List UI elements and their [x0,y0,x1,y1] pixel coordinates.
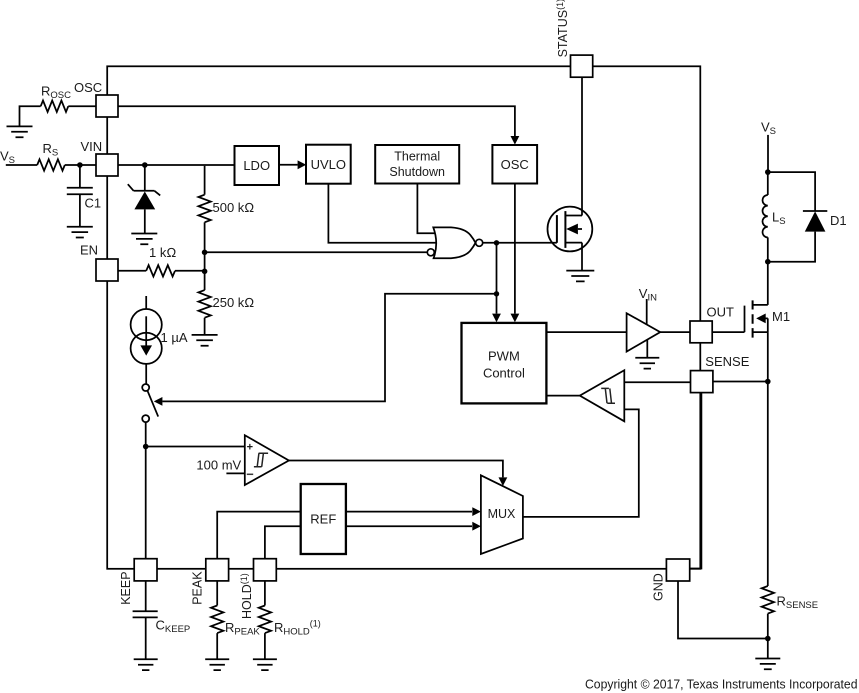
pin OUT [690,321,712,343]
svg-text:OUT: OUT [707,305,735,320]
wire SENSE pin to GND pin [690,393,702,569]
wire 1k to junction [175,270,205,272]
ground (R_SENSE) [755,659,780,670]
svg-text:+: + [247,441,253,453]
capacitor C_KEEP [133,581,158,660]
switch [142,384,149,391]
wire HOLD pin to REF [265,526,301,558]
wire inductor to bottom node [767,237,769,261]
wire EN pin to 1k [118,270,146,272]
ground (R_PEAK) [205,659,229,670]
wire R_S to VIN pin [65,164,96,166]
node (EN comparator tap) [202,250,208,256]
node (Ls/D1 top) [765,169,771,175]
wire SENSE pin to node [713,381,768,383]
svg-text:250 kΩ: 250 kΩ [213,295,255,310]
diode D1 branch [768,172,828,262]
wire SENSE pin to Schmitt input [624,381,690,383]
resistor 500 kOhm [198,195,210,223]
wire 100mV comparator output to MUX with arrow [289,461,503,478]
pin PEAK [206,559,229,581]
pin KEEP [134,559,157,581]
wire Schmitt buffer output to PWM [546,395,579,397]
wire tap to NOR inverted input [205,251,428,253]
wire node to comparator [146,446,245,448]
pin VIN [96,154,118,176]
wire Vs to inductor node [767,135,769,172]
wire Vs lead [6,164,37,166]
svg-text:OSC: OSC [74,80,102,95]
wire switch to KEEP column [145,422,147,558]
buffer VIN driver [627,313,661,351]
ground (C_KEEP) [134,659,158,670]
resistor R_OSC [41,101,69,112]
svg-text:Shutdown: Shutdown [389,165,445,179]
capacitor C1 [67,165,93,227]
svg-text:SENSE: SENSE [705,354,749,369]
wire VIN buffer to OUT pin [660,331,690,333]
svg-text:LDO: LDO [243,158,270,173]
inductor Ls [763,195,768,237]
svg-text:C1: C1 [85,196,102,211]
wire VIN pin to LDO [118,164,235,166]
svg-text:PWM: PWM [488,348,520,363]
wire REF to MUX input 2 with arrow [346,525,472,527]
svg-text:MUX: MUX [488,507,516,521]
wire UVLO to NOR input [328,184,436,243]
wire R_OSC to OSC pin [68,105,96,107]
wire R_OSC left lead [20,106,41,126]
NOR gate U1 [433,227,475,258]
svg-text:D1: D1 [830,213,847,228]
op-amp 100mV comparator [245,435,289,485]
pin GND [666,559,689,581]
wire 500k to divider node [204,222,206,271]
pin EN [96,259,118,281]
svg-text:Control: Control [483,365,525,380]
svg-text:Thermal: Thermal [394,150,440,164]
resistor R_PEAK [211,581,223,660]
wire 500k top lead [204,166,206,195]
svg-text:EN: EN [80,243,98,258]
IC boundary [107,66,700,569]
zener diode [128,165,160,234]
wire STATUS pin to FET drain [581,77,583,215]
block PWM Control [462,323,547,404]
wire OSC pin to OSC block with arrow [118,106,515,136]
wire NOR node down to PWM with arrow [496,243,498,314]
pin SENSE [691,371,713,393]
ground (R_HOLD) [253,659,277,670]
svg-text:REF: REF [310,512,336,527]
wire GND pin to Rsense ground node [678,581,768,639]
block Thermal Shutdown [375,145,459,184]
svg-text:VIN: VIN [81,139,103,154]
wire PWM to VIN buffer [546,331,626,333]
block UVLO [306,145,351,184]
block LDO [235,146,280,185]
svg-text:500 kΩ: 500 kΩ [213,200,255,215]
wire REF to MUX input 1 with arrow [346,511,472,513]
wire node to inductor [767,172,769,195]
ground (R_OSC branch) [7,126,33,137]
node (C1 junction) [77,162,83,168]
wire M1 source to SENSE node [767,332,769,381]
wire MUX output to Schmitt input [523,409,639,517]
svg-text:Copyright © 2017, Texas Instru: Copyright © 2017, Texas Instruments Inco… [585,676,858,691]
current source 1uA [145,296,147,309]
svg-text:KEEP: KEEP [119,571,133,604]
node (1k / 250k junction) [202,269,208,275]
svg-text:1 µA: 1 µA [161,330,188,345]
resistor R_HOLD [259,581,271,660]
node (Ls/D1 bottom) [765,259,771,265]
pin STATUS [571,55,593,77]
wire 100mV minus input stub [226,472,244,474]
wire PEAK pin to REF [217,512,301,559]
pin OSC [96,95,118,117]
block OSC [492,145,537,184]
resistor 250 kOhm [198,271,210,335]
resistor R_S [37,159,65,170]
wire OSC block to PWM with arrow [514,184,516,314]
wire Thermal Shutdown to NOR input [417,184,435,234]
wire LDO to UVLO with arrow [279,164,298,166]
ground (C1) [67,227,93,238]
ground (250k) [192,335,218,346]
wire switch control with arrow [162,294,496,402]
node (NOR output) [494,240,499,245]
resistor R_SENSE [762,382,774,659]
ground (zener) [131,234,157,245]
wire node to M1 drain [767,262,769,305]
svg-text:M1: M1 [772,309,790,324]
resistor 1 kOhm [146,265,175,276]
svg-text:OSC: OSC [501,157,529,172]
svg-text:100 mV: 100 mV [196,458,241,473]
node (comparator + input) [143,444,149,450]
node (zener junction) [142,162,148,168]
MUX [481,475,523,554]
ground (STATUS FET) [566,271,594,282]
block REF [301,484,346,554]
svg-text:PEAK: PEAK [190,571,204,605]
node (Rsense ground) [765,636,771,642]
transistor M1 [712,306,744,333]
wire NOR output to STATUS FET gate [483,242,557,244]
node (SENSE) [765,379,771,385]
svg-text:1 kΩ: 1 kΩ [149,245,176,260]
op-amp Schmitt current comparator [580,370,625,421]
node (switch control branch) [494,291,499,296]
pin HOLD [254,559,277,581]
ground (VIN buffer) [635,358,659,369]
transistor STATUS FET [548,207,593,252]
svg-text:UVLO: UVLO [311,157,346,172]
svg-text:GND: GND [652,573,666,601]
